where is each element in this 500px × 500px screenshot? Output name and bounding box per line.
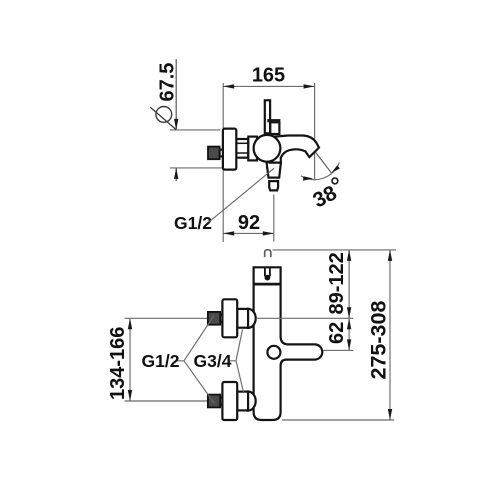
svg-text:134-166: 134-166: [107, 327, 129, 400]
lower neck: [220, 398, 223, 405]
svg-text:G1/2: G1/2: [174, 213, 212, 233]
angle arc: [301, 163, 340, 180]
extension line right (spout tip, x=314.6): [314, 83, 316, 181]
dimension line 89-122 / 62 (x=349): [348, 250, 350, 351]
extension line body bottom (y=420): [282, 419, 394, 421]
extension line left (wall plane, x=223): [222, 83, 224, 242]
spout (side view): [270, 136, 319, 164]
wall flange (side view): [223, 129, 236, 170]
svg-text:G1/2: G1/2: [142, 351, 180, 371]
union collar: [248, 137, 257, 161]
leader G1/2 (side view): [209, 168, 275, 222]
svg-text:275-308: 275-308: [367, 301, 391, 380]
lever tip (front view): [265, 250, 271, 257]
angle arc arrow left: [303, 176, 313, 180]
dimension line 275-308 (x=390): [389, 250, 391, 420]
angle reference line 38deg: [315, 152, 331, 173]
arrow 165 right: [304, 84, 315, 88]
arrow 67.5 down: [174, 119, 178, 130]
extension line lower union axis left: [125, 400, 209, 402]
diverter knob circle: [267, 346, 280, 359]
svg-text:38: 38: [309, 181, 341, 212]
dimension line 165: [223, 85, 314, 87]
arrow 165 left: [223, 84, 234, 88]
extension line flange top (y=130): [170, 129, 221, 131]
svg-text:165: 165: [252, 65, 285, 87]
arrow 92 right: [263, 231, 274, 235]
mixer body (circle): [254, 135, 281, 162]
svg-text:G3/4: G3/4: [194, 351, 232, 371]
lever slot: [264, 268, 266, 277]
diameter symbol circle: [156, 107, 172, 123]
lower nut (dark): [208, 395, 220, 408]
lever rod (side view): [265, 100, 270, 133]
cartridge block: [270, 122, 279, 134]
diameter symbol slash: [150, 107, 176, 129]
dimension line 134-166 (x=130): [129, 318, 131, 401]
svg-text:89-122: 89-122: [326, 252, 348, 314]
leader G3/4 fork: [228, 330, 244, 393]
leader G1/2 fork (front view): [176, 316, 215, 404]
extension line spout axis (y=350): [324, 349, 354, 351]
upper nut (dark): [208, 312, 220, 325]
extension line shower outlet axis (x=274): [273, 195, 275, 242]
dimension line 92: [223, 232, 274, 234]
angle arc arrow right: [331, 165, 340, 173]
lower wall flange: [222, 382, 237, 420]
svg-text:67.5: 67.5: [157, 63, 179, 102]
arrow 92 left: [223, 231, 234, 235]
wall union nut (striped): [236, 139, 248, 158]
dimension line 67.5 vertical: [175, 59, 177, 129]
lower union half-ball: [248, 392, 256, 411]
outlet nipple: [269, 181, 278, 190]
upper union half-ball: [248, 309, 256, 328]
handle knob (dark): [208, 147, 220, 160]
arrow 67.5 up with tail: [175, 168, 177, 181]
svg-text:92: 92: [238, 212, 260, 234]
upper union cylinder: [237, 309, 248, 328]
degree ring of 38 label: [332, 178, 338, 184]
extension line lever top (y=250): [273, 249, 397, 251]
extension line upper union axis right (y=318): [257, 317, 353, 319]
lever bar (dark): [267, 119, 280, 122]
lower union cylinder: [237, 392, 248, 411]
handle neck: [220, 150, 223, 157]
svg-text:62: 62: [326, 322, 348, 344]
body column with spout arm (front view): [254, 267, 323, 420]
shower outlet valve (tapered, side view): [266, 161, 281, 177]
upper neck: [220, 315, 223, 322]
upper wall flange: [222, 299, 237, 337]
lever screw dot: [265, 275, 271, 281]
extension line flange bottom (y=168): [170, 167, 222, 169]
extension line upper union axis left: [125, 317, 209, 319]
cap separation line: [254, 283, 281, 286]
